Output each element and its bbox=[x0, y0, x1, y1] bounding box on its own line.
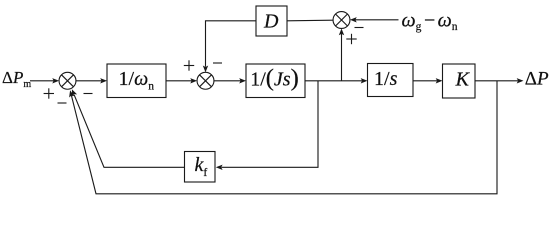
sign plus at S1 bbox=[44, 88, 54, 98]
block D bbox=[256, 6, 287, 36]
block 1/s bbox=[368, 64, 414, 97]
node input label dPm bbox=[2, 68, 31, 90]
sign plus at S3 bottom input bbox=[346, 34, 356, 44]
svg-text:D: D bbox=[263, 11, 279, 33]
wire K to output dP bbox=[475, 80, 518, 82]
sign minus at S2 bbox=[213, 62, 222, 64]
summing junction S1 bbox=[59, 72, 76, 89]
wire kf output to S1 bbox=[74, 95, 184, 168]
sign plus at S2 bbox=[184, 60, 194, 70]
wire D output down to S2 bbox=[206, 21, 257, 67]
summing junction S3 bbox=[333, 12, 350, 29]
sign minus right of S1 bbox=[84, 93, 93, 95]
svg-text:1/ωn: 1/ωn bbox=[119, 68, 155, 92]
svg-text:kf: kf bbox=[195, 154, 208, 179]
node input wg minus wn bbox=[402, 10, 458, 34]
wire wg-wn input to S3 bbox=[355, 19, 399, 21]
node output label dP bbox=[525, 68, 549, 89]
summing junction S2 bbox=[197, 72, 214, 89]
wire outer feedback from K output bbox=[71, 81, 497, 194]
wire S2 to block 1/(Js) bbox=[214, 80, 241, 82]
svg-text:ωg−ωn: ωg−ωn bbox=[402, 10, 458, 34]
svg-text:K: K bbox=[455, 69, 471, 91]
block K bbox=[443, 64, 476, 98]
wire input to summing junction S1 bbox=[30, 80, 54, 82]
wire 1/wn to summing junction S2 bbox=[166, 80, 192, 82]
wire takeoff down to kf input bbox=[222, 81, 319, 168]
sign minus below S1 bbox=[58, 102, 67, 104]
wire S3 to block D bbox=[287, 19, 333, 22]
block 1/wn bbox=[107, 64, 166, 98]
block 1/(Js) bbox=[246, 64, 305, 98]
wire S1 to block 1/wn bbox=[76, 80, 102, 82]
svg-text:1/s: 1/s bbox=[374, 68, 398, 90]
wire 1/s to block K bbox=[413, 80, 437, 82]
sign minus at S3 right input bbox=[355, 27, 364, 29]
svg-text:ΔP: ΔP bbox=[525, 68, 549, 89]
wire takeoff up from main line to S3 bbox=[341, 34, 343, 81]
svg-text:1/(Js): 1/(Js) bbox=[250, 65, 299, 92]
svg-text:ΔPm: ΔPm bbox=[2, 68, 31, 90]
block kf bbox=[185, 152, 216, 183]
wire 1/(Js) to block 1/s bbox=[305, 80, 362, 82]
